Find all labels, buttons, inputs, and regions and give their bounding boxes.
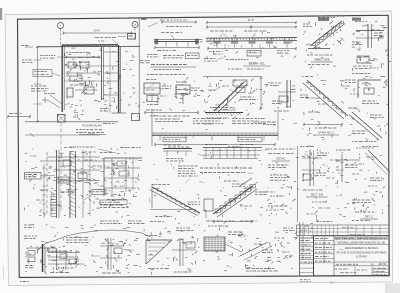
column box at grid A xyxy=(58,115,66,123)
box on divider xyxy=(132,114,140,121)
roof hanger caption xyxy=(147,65,196,75)
stair tread ladder lower-left xyxy=(51,194,57,216)
far right detail column lower xyxy=(352,147,390,220)
lower-left plan verticals xyxy=(47,150,76,218)
bottom detail group 3 xyxy=(172,228,200,272)
title block outer box xyxy=(314,236,390,276)
column grid bubble A xyxy=(58,23,64,46)
platform member labels below xyxy=(154,137,276,147)
sheet number bottom-left xyxy=(20,281,29,283)
platform long member xyxy=(152,110,278,146)
inner stud wall vertical xyxy=(102,47,104,100)
upper right small detail pair xyxy=(353,56,391,71)
left margin tick mark xyxy=(42,97,48,103)
bottom hatched box detail xyxy=(204,232,245,252)
bottom middle notes xyxy=(206,221,257,226)
annotation scatter lower-left xyxy=(24,148,136,218)
border notch mark top xyxy=(141,18,147,20)
plan divider vertical line xyxy=(138,19,140,121)
roof hanger detail dimension xyxy=(148,20,197,39)
annotation scatter lower-middle xyxy=(154,149,299,220)
svg-text:FLOOR PLAN: FLOOR PLAN xyxy=(82,124,101,128)
extra marks bottom band xyxy=(31,225,297,273)
svg-text:24′-0″: 24′-0″ xyxy=(94,29,101,33)
monorail beam labels xyxy=(210,31,266,38)
nailer labels above beam xyxy=(95,34,136,45)
upper right stair flight detail xyxy=(300,77,356,136)
extra label patches xyxy=(30,37,379,257)
annotation scatter right mid band xyxy=(301,74,388,140)
extra marks lower-left plan xyxy=(47,153,142,216)
left margin note block 3 xyxy=(31,86,48,91)
scan mark bottom-left xyxy=(2,266,5,279)
extra marks top-left plan interior xyxy=(65,51,137,117)
monorail beam dimension line xyxy=(206,18,297,29)
svg-text:BEAM - EL.: BEAM - EL. xyxy=(249,62,266,66)
bottom gusset detail xyxy=(145,236,172,269)
svg-text:MATERIAL LABORATORY BUILDING: MATERIAL LABORATORY BUILDING NO. 291 xyxy=(338,241,387,244)
lower-left existing wall label box xyxy=(25,173,56,180)
svg-text:WEST SIDE: WEST SIDE xyxy=(314,58,329,62)
beam elevation caption xyxy=(204,59,271,70)
divider vertical right xyxy=(297,146,299,222)
column grid bubble B xyxy=(132,22,138,41)
beam lower dimension line xyxy=(207,44,297,50)
annotation scatter top-left plan xyxy=(65,48,140,120)
right column captions block xyxy=(266,149,296,215)
mid-left detail box A xyxy=(144,80,172,105)
roof hanger lower dim and labels xyxy=(140,46,200,63)
dark label blob top right 1 xyxy=(318,18,329,21)
mid diagonal brace detail xyxy=(203,77,263,119)
title block left column rows xyxy=(314,236,335,263)
dark label blob top right 2 xyxy=(352,18,361,21)
svg-text:NEW YORK NAVAL SHIPYARD BROOK: NEW YORK NAVAL SHIPYARD BROOKLYN, N.Y. xyxy=(335,238,388,241)
scan smudge bottom-right xyxy=(385,284,400,293)
mid-left detail box B xyxy=(175,82,204,104)
revision table strip xyxy=(300,236,314,276)
bottom-left caption rows xyxy=(66,238,90,243)
far right lower detail xyxy=(348,108,384,142)
dimension 24'-0 between grids xyxy=(63,29,133,35)
annotation scatter beam area xyxy=(207,31,296,59)
long note lines xyxy=(200,168,252,173)
svg-text:DETAIL: DETAIL xyxy=(277,157,286,161)
notes above revision grid xyxy=(316,221,370,222)
plan interior details xyxy=(65,53,100,98)
top right stair detail xyxy=(303,18,345,50)
hanger connection blobs under beam xyxy=(214,38,291,48)
scan smudge top-left xyxy=(0,8,2,20)
spacing caption lower-left top xyxy=(120,147,141,149)
svg-text:21′-6″: 21′-6″ xyxy=(248,18,255,22)
lower stair flight section xyxy=(150,184,201,222)
top right captions xyxy=(307,55,333,65)
floor plan caption xyxy=(76,124,106,135)
svg-text:OF 2'ND FLOOR MEZZANINE PLATFO: OF 2'ND FLOOR MEZZANINE PLATFORMS xyxy=(337,251,387,254)
far right rail detail upper xyxy=(352,74,387,104)
extra leader arrows xyxy=(51,58,361,257)
bottom middle scatter details xyxy=(240,240,293,271)
stair leaders lower left xyxy=(44,94,62,109)
left margin 2x4 labels xyxy=(100,109,116,124)
left margin note block 1 xyxy=(40,56,64,59)
right band angle detail upper xyxy=(300,147,340,198)
wall section heavy horizontal beam xyxy=(37,44,140,47)
top right hanger detail xyxy=(352,22,387,52)
sheet number below title block xyxy=(330,281,335,284)
svg-text:SECT. B-B: SECT. B-B xyxy=(311,193,324,197)
beam lower labels xyxy=(196,40,289,57)
lower-left plan top note xyxy=(70,147,112,152)
platform elevation captions xyxy=(210,108,236,111)
extra marks right columns xyxy=(154,80,390,216)
title block header text xyxy=(334,237,389,244)
navdocks stamp below border xyxy=(300,280,311,282)
lower-left plan horizontals and fixtures xyxy=(47,150,100,218)
plan interior horizontals xyxy=(64,47,118,113)
big stair isometric lower-middle xyxy=(204,178,266,223)
ground line left xyxy=(25,133,100,137)
bottom detail group 2 xyxy=(100,221,144,273)
lower-left label boxes xyxy=(58,177,127,204)
right wall heavy vertical xyxy=(112,45,126,113)
left dimension chain vertical xyxy=(34,46,42,123)
revision strip upper extension lines xyxy=(283,222,314,276)
annotation scatter top-right xyxy=(303,16,389,68)
mid shelf bar detail xyxy=(163,145,192,161)
svg-text:ARRANGEMENT & DETAILS: ARRANGEMENT & DETAILS xyxy=(345,246,379,250)
mid-left dim and caption xyxy=(144,110,199,116)
svg-text:22-7: 22-7 xyxy=(330,281,335,284)
bottom-left heavy post xyxy=(26,244,78,274)
left margin note block 4 xyxy=(21,46,33,63)
plan base line xyxy=(25,121,118,123)
svg-text:481744: 481744 xyxy=(379,264,387,266)
bottom-left corner extra framing xyxy=(24,236,93,272)
title block drawing title xyxy=(337,246,387,258)
roof hanger member xyxy=(154,39,199,47)
left margin note block 2 xyxy=(33,70,60,77)
annotation scatter bottom band xyxy=(25,222,297,275)
svg-text:& STAIRS: & STAIRS xyxy=(356,255,368,258)
note paragraph right of shelf xyxy=(178,166,198,176)
revision cloud boundary xyxy=(38,230,150,250)
right band angle detail lower xyxy=(335,150,362,183)
annotation scatter right lower xyxy=(302,149,384,221)
svg-text:STAIR NO. 2: STAIR NO. 2 xyxy=(318,131,334,135)
svg-text:DET. C: DET. C xyxy=(365,215,373,219)
grid A dashed line lower xyxy=(60,123,62,213)
revision grid table above title block xyxy=(297,225,390,236)
wide platform framing detail xyxy=(203,145,262,159)
mid small bracket detail xyxy=(270,80,296,111)
wall section heavy vertical wall xyxy=(61,45,64,112)
left dim group near border xyxy=(7,114,31,119)
platform elevation notes band xyxy=(155,119,278,125)
bottom-left small note xyxy=(24,225,34,227)
lower-left plan main horizontal xyxy=(40,161,115,218)
monorail beam heavy flange xyxy=(206,38,297,42)
title block bottom cells xyxy=(335,266,389,276)
title block scale row xyxy=(334,262,389,266)
annotation scatter mid band xyxy=(143,77,296,119)
mid-left shelf detail xyxy=(100,153,142,208)
svg-text:NO.: NO. xyxy=(371,264,375,266)
